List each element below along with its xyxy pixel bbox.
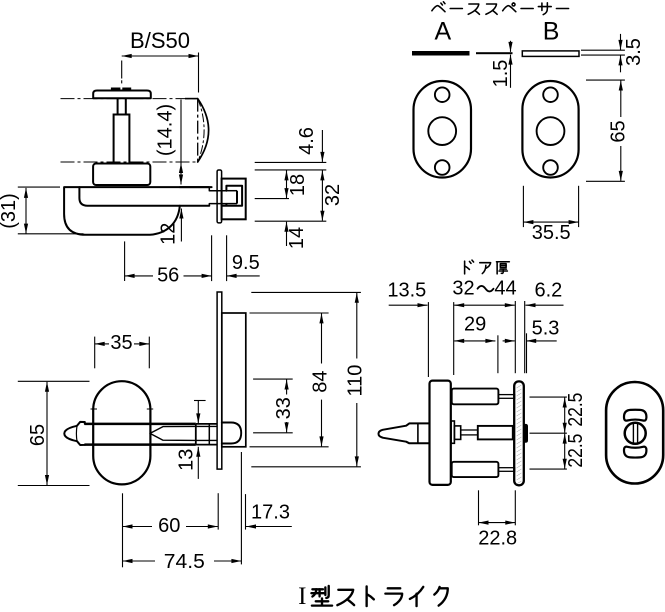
svg-text:84: 84 [310, 370, 332, 392]
svg-text:74.5: 74.5 [164, 551, 205, 573]
svg-text:6.2: 6.2 [534, 279, 562, 301]
svg-text:13: 13 [176, 449, 198, 471]
svg-text:B: B [543, 18, 560, 46]
svg-text:22.5: 22.5 [565, 434, 587, 468]
svg-text:9.5: 9.5 [232, 252, 260, 274]
svg-text:56: 56 [157, 264, 179, 286]
svg-text:5.3: 5.3 [532, 318, 560, 340]
svg-text:A: A [435, 18, 452, 46]
svg-text:17.3: 17.3 [251, 501, 290, 523]
svg-text:35: 35 [110, 332, 132, 354]
svg-text:22.5: 22.5 [565, 393, 587, 427]
svg-text:3.5: 3.5 [623, 38, 645, 66]
svg-text:4.6: 4.6 [296, 127, 318, 155]
svg-text:35.5: 35.5 [532, 222, 571, 244]
svg-text:18: 18 [287, 174, 309, 196]
svg-text:29: 29 [464, 314, 486, 336]
svg-text:1.5: 1.5 [490, 60, 512, 88]
svg-text:14: 14 [286, 227, 308, 249]
svg-text:110: 110 [344, 365, 366, 397]
svg-text:(14.4): (14.4) [155, 104, 177, 156]
svg-text:32: 32 [452, 278, 474, 300]
svg-text:33: 33 [273, 397, 295, 419]
svg-text:13.5: 13.5 [387, 279, 426, 301]
svg-text:32: 32 [322, 184, 344, 206]
svg-text:65: 65 [27, 424, 49, 446]
svg-text:B/S50: B/S50 [130, 28, 190, 53]
svg-text:65: 65 [608, 120, 630, 142]
svg-text:60: 60 [158, 515, 180, 537]
svg-text:I: I [298, 583, 306, 610]
svg-text:12: 12 [158, 223, 180, 245]
svg-text:22.8: 22.8 [478, 527, 517, 549]
svg-text:44: 44 [494, 278, 516, 300]
svg-text:(31): (31) [0, 193, 20, 229]
